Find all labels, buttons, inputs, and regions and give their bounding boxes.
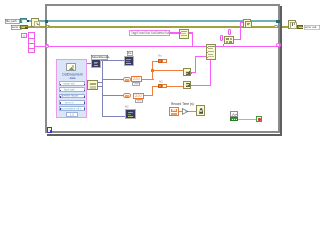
while loop shadow right — [280, 6, 282, 136]
wire: node5 out up to write node — [234, 39, 241, 40]
node: to-dbl pill chain2 — [123, 93, 131, 99]
wire: cluster to MeanResults stub — [87, 63, 92, 64]
terminal: stop boolean (chart+green) — [230, 111, 238, 117]
node: open/create file — [31, 18, 39, 27]
wire: junction up into node5 — [223, 44, 224, 47]
node: number to string (node3) — [183, 68, 191, 76]
while loop shadow bottom — [47, 134, 283, 136]
terminal: loop conditional — [256, 116, 262, 122]
wire: green boolean to conditional — [238, 119, 256, 120]
indicator: N2 numeric — [158, 84, 162, 88]
indicator: error out icon — [297, 25, 304, 29]
wire: teal refnum wire across diagram — [28, 20, 277, 21]
while loop border — [45, 4, 281, 133]
tunnel: pink ring left — [45, 44, 50, 48]
label: Fs — [127, 51, 133, 56]
constant: empty string 0 (above node5) — [228, 29, 232, 34]
wire: slate branch chain2 — [102, 95, 123, 96]
node: format into string (node2) — [206, 44, 216, 61]
cluster rows — [59, 81, 85, 86]
constant: path format string — [129, 30, 170, 35]
wire: node1 out then down — [189, 32, 194, 33]
tunnel: teal right — [276, 20, 279, 23]
tunnel: teal left — [45, 20, 48, 23]
node: scan string tokens (node1) — [179, 29, 189, 39]
control: DotDocument cluster — [56, 59, 87, 118]
control: error in icon — [20, 25, 28, 29]
wire: slate vertical trunk — [102, 60, 103, 117]
terminal: loop iteration i — [47, 127, 52, 132]
node: wait ms metronome — [196, 105, 205, 116]
constant: string array cells — [28, 32, 35, 53]
wire: slate branch chain1 — [102, 79, 123, 80]
constant: string array index box — [21, 33, 27, 38]
terminal: Fs graph icon — [124, 56, 134, 66]
wire: record time to wait — [179, 111, 182, 112]
constant: empty string 0 (left of node5) — [220, 35, 224, 41]
indicator: Nu numeric — [158, 59, 163, 63]
terminal: MeanResults graph icon — [91, 59, 101, 69]
wire: node3 out up to node2 — [191, 72, 196, 73]
label: Nu — [158, 55, 162, 58]
wire: node4 out up to node2 bottom — [191, 85, 211, 86]
wire: slate branch to N2 graph — [102, 116, 126, 117]
node: conversion triangle — [182, 108, 189, 116]
node: to-dbl pill chain1 — [123, 77, 131, 83]
wire: olive error wire right segment to handler — [277, 26, 297, 28]
constant: 220 chain1 — [131, 76, 142, 82]
wire: string const to node1 — [170, 32, 179, 33]
node: unbundle by name — [87, 80, 97, 90]
control: file path label — [5, 19, 20, 24]
tunnel: olive ring left — [46, 25, 50, 28]
junction dot — [151, 69, 154, 72]
wire: unbundle stubs — [97, 82, 102, 83]
node: write text file — [243, 19, 251, 28]
wire: slate MeanResults to Fs — [100, 60, 124, 61]
node: number to string (node4) — [183, 81, 191, 89]
node: build path (node5) — [224, 36, 235, 44]
label: N2 — [159, 81, 163, 84]
wire: main pink string wire — [35, 46, 277, 47]
constant: 220 chain2 — [133, 93, 143, 99]
wire: orange branch to node3 — [152, 70, 183, 71]
tunnel: pink ring right — [276, 43, 281, 47]
control: error in label — [11, 25, 22, 30]
wire: orange chain2 out up to node4/N2 — [143, 95, 154, 96]
indicator: error out label — [304, 25, 320, 30]
tunnel: olive ring right — [274, 25, 278, 28]
cluster icon — [66, 63, 76, 71]
node: simple error handler — [288, 20, 296, 29]
terminal: N2 graph icon — [125, 109, 135, 120]
wire: orange chain1 out up to Nu — [142, 79, 154, 80]
label: MeanResults — [91, 55, 108, 60]
control: file path icon — [20, 18, 27, 23]
wire: olive error wire across diagram — [28, 26, 275, 28]
label: Record Time (s) — [171, 103, 194, 106]
label: N2 graph — [125, 106, 129, 109]
control: record time numeric — [169, 107, 180, 117]
